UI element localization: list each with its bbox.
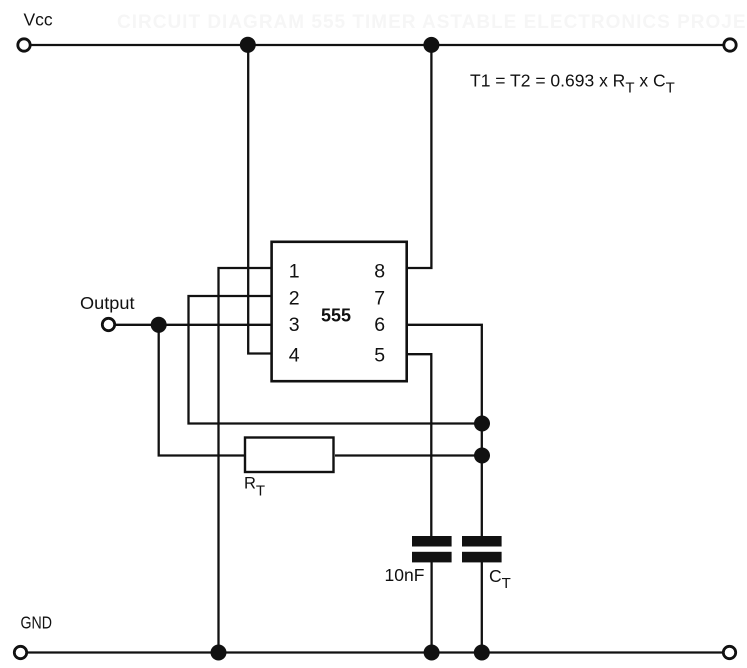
wire pin 6 to capacitor CT (407, 325, 482, 537)
svg-text:CIRCUIT DIAGRAM 555 TIMER ASTA: CIRCUIT DIAGRAM 555 TIMER ASTABLE ELECTR… (117, 12, 747, 33)
svg-text:CT: CT (489, 566, 511, 592)
svg-text:3: 3 (289, 314, 300, 336)
terminal GND right (723, 646, 735, 658)
wire pin 1 to GND (219, 268, 271, 653)
junction GND 10nF (424, 645, 440, 661)
junction top rail left (240, 37, 256, 53)
svg-text:RT: RT (244, 475, 265, 500)
resistor RT body (245, 438, 334, 473)
wire GND bottom rail (28, 651, 723, 653)
wire Output to resistor RT left (159, 325, 244, 456)
junction GND pin1 (211, 645, 227, 661)
svg-text:5: 5 (374, 345, 385, 367)
junction Output node (151, 317, 167, 333)
junction node C resistor/CT (474, 448, 490, 464)
svg-text:Output: Output (80, 293, 135, 313)
wire Vcc to pin 8 (407, 45, 432, 268)
svg-text:8: 8 (374, 260, 385, 282)
wire resistor RT right to node C (335, 454, 482, 456)
svg-text:10nF: 10nF (385, 565, 425, 585)
junction node B pin2/pin6 (474, 416, 490, 432)
svg-text:6: 6 (374, 314, 385, 336)
terminal GND left (14, 646, 26, 658)
svg-text:2: 2 (289, 288, 300, 310)
svg-text:Vcc: Vcc (24, 10, 53, 30)
svg-text:1: 1 (289, 260, 300, 282)
capacitor CT plates (462, 536, 502, 562)
svg-text:4: 4 (289, 345, 300, 367)
svg-text:GND: GND (21, 613, 53, 633)
wire pin 5 to capacitor 10nF (407, 354, 432, 536)
junction top rail right (423, 37, 439, 53)
wire CT to GND (481, 562, 483, 653)
wire pin 3 to Output (115, 324, 271, 326)
terminal Vcc left (18, 39, 30, 51)
svg-text:T1 = T2 = 0.693 x RT x CT: T1 = T2 = 0.693 x RT x CT (470, 71, 675, 97)
svg-text:555: 555 (321, 306, 351, 326)
terminal Output (102, 318, 114, 330)
wire Vcc to pin 4 (248, 45, 270, 354)
wire 10nF to GND (430, 562, 432, 653)
svg-text:7: 7 (374, 288, 385, 310)
wire Vcc top rail (31, 44, 723, 46)
terminal Vcc right (724, 39, 736, 51)
op ic 555 U1 body (272, 242, 407, 381)
capacitor 10nF plates (412, 536, 452, 562)
wire pin 2 to node B (189, 296, 483, 424)
junction GND CT (474, 645, 490, 661)
